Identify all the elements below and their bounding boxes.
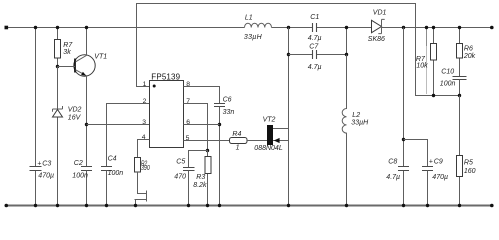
node junction C8 C9	[402, 138, 405, 141]
capacitor C5 470	[174, 159, 194, 206]
svg-text:C1: C1	[310, 14, 319, 21]
node junction C4 bottom	[105, 204, 108, 207]
wire top rail mid segment C1 to VD1	[317, 27, 372, 29]
svg-text:R4: R4	[232, 131, 241, 138]
svg-text:1: 1	[143, 81, 147, 88]
svg-text:C7: C7	[309, 44, 319, 51]
svg-text:8: 8	[186, 81, 190, 88]
svg-text:VD2: VD2	[68, 107, 82, 114]
wire output node down to C8	[403, 28, 405, 206]
resistor R7 3k	[55, 28, 74, 67]
svg-text:VT1: VT1	[94, 54, 107, 61]
node junction R1 bottom FB	[432, 94, 435, 97]
transistor VT2 088N04L	[254, 117, 288, 153]
svg-text:4.7µ: 4.7µ	[308, 64, 322, 71]
capacitor C4	[101, 156, 123, 206]
svg-text:8.2k: 8.2k	[193, 182, 207, 189]
svg-text:C10: C10	[441, 69, 454, 76]
node junction C3 top	[34, 26, 37, 29]
resistor R6 20k	[457, 28, 476, 77]
zener diode VD2 16V	[53, 67, 82, 206]
svg-text:470µ: 470µ	[432, 174, 448, 181]
svg-text:4.7µ: 4.7µ	[308, 35, 322, 42]
node junction FB sense top	[425, 26, 428, 29]
svg-text:C6: C6	[223, 97, 232, 104]
node input terminal minus	[5, 204, 9, 208]
node junction C1 C7 L2 VD1	[345, 26, 348, 29]
svg-text:33µH: 33µH	[351, 120, 369, 127]
node junction R1 top	[432, 26, 435, 29]
wire top rail left segment	[8, 27, 245, 29]
wire R2 bottom jog to ground	[135, 172, 147, 206]
svg-text:R5: R5	[464, 160, 473, 167]
svg-text:4.7µ: 4.7µ	[386, 174, 400, 181]
node junction R7 VD2 base	[56, 65, 59, 68]
node junction C10 bottom FB	[458, 94, 461, 97]
svg-text:C5: C5	[176, 159, 185, 166]
capacitor C7 4.7u	[289, 44, 347, 72]
svg-text:L2: L2	[352, 112, 360, 119]
transistor VT1	[58, 28, 108, 77]
wire C8 node to C9	[404, 140, 428, 167]
svg-text:VT2: VT2	[263, 117, 276, 124]
svg-text:FP5139: FP5139	[151, 72, 180, 81]
node junction VT1 collector top	[85, 26, 88, 29]
op-amp U1 FP5139	[142, 72, 191, 147]
capacitor C3	[30, 28, 55, 206]
svg-text:R3: R3	[196, 174, 205, 181]
node junction R7 top	[56, 26, 59, 29]
svg-text:7: 7	[186, 98, 190, 105]
svg-text:160: 160	[464, 168, 476, 175]
capacitor C10 100n	[440, 69, 467, 96]
svg-text:3: 3	[142, 119, 146, 126]
capacitor C6 33n	[214, 97, 234, 206]
node junction C7 L2	[345, 53, 348, 56]
svg-text:100n: 100n	[72, 173, 88, 180]
resistor R2 390	[135, 158, 150, 173]
node junction VT2 source ground	[287, 204, 290, 207]
node junction R3 top	[206, 149, 209, 152]
node junction switch node top	[287, 26, 290, 29]
svg-text:390: 390	[141, 165, 150, 172]
inductor L2 33uH	[342, 55, 369, 206]
node junction C3 bottom	[34, 204, 37, 207]
svg-text:R6: R6	[464, 46, 473, 53]
resistor R5 160	[457, 96, 476, 206]
svg-text:33µH: 33µH	[244, 34, 263, 41]
svg-text:C3: C3	[42, 161, 51, 168]
node input terminal plus	[5, 26, 9, 30]
node junction C9 ground	[426, 204, 429, 207]
svg-text:088N04L: 088N04L	[254, 145, 283, 152]
wire VT1 emitter down to C2	[86, 76, 88, 167]
svg-text:100n: 100n	[108, 170, 124, 177]
svg-text:+: +	[37, 161, 41, 168]
inductor L1 33uH	[244, 15, 272, 41]
svg-text:33n: 33n	[223, 109, 235, 116]
svg-text:10k: 10k	[416, 63, 428, 70]
resistor R1 10k	[416, 28, 437, 96]
wire pin 3 to emitter line	[87, 124, 150, 126]
node junction C8 ground	[402, 204, 405, 207]
capacitor C1 4.7u	[308, 14, 322, 42]
svg-text:3k: 3k	[63, 49, 71, 56]
node output terminal plus	[490, 26, 494, 30]
svg-text:C2: C2	[74, 160, 83, 167]
svg-text:2: 2	[143, 98, 147, 105]
wire pin 4 to R2	[138, 140, 150, 158]
node junction output caps top	[402, 26, 405, 29]
capacitor C9 470u	[422, 159, 448, 206]
wire R3 top to C5	[189, 151, 208, 168]
svg-text:470: 470	[174, 174, 186, 181]
node junction C6 line ground	[218, 204, 221, 207]
wire R4 to VT2 gate	[247, 140, 267, 142]
node junction R5 ground	[458, 204, 461, 207]
resistor R3 8.2k	[193, 151, 211, 206]
svg-text:C4: C4	[108, 156, 117, 163]
wire pin 8 to C6	[184, 87, 220, 104]
svg-text:C9: C9	[434, 159, 443, 166]
wire pin 5 to R4	[184, 140, 230, 142]
wire C7 right up to rail	[346, 28, 348, 55]
wire switch node vertical L1 to VT2 to ground	[288, 28, 290, 206]
wire feedback loop pin1 over top to FB node	[137, 4, 460, 96]
svg-text:470µ: 470µ	[38, 173, 54, 180]
svg-text:20k: 20k	[463, 53, 476, 60]
node junction C2 bottom	[85, 204, 88, 207]
svg-text:100n: 100n	[440, 81, 456, 88]
node junction R2 ground	[134, 204, 137, 207]
node junction C5 ground	[187, 204, 190, 207]
node junction L2 ground	[345, 204, 348, 207]
svg-text:1: 1	[236, 144, 240, 151]
svg-text:R7: R7	[63, 42, 73, 49]
svg-text:C8: C8	[388, 159, 397, 166]
node junction R6 top	[458, 26, 461, 29]
resistor R4 1	[230, 131, 248, 151]
node junction C7 branch	[287, 53, 290, 56]
wire FB sense rail to FB node	[426, 28, 428, 47]
capacitor C8 4.7u	[386, 159, 409, 182]
node output terminal minus	[490, 204, 494, 208]
wire pin 7 down to R3	[184, 104, 208, 151]
diode VD1 SK86	[368, 9, 387, 43]
capacitor C2	[72, 160, 92, 206]
wire pin 2 to C4	[107, 104, 150, 167]
svg-text:16V: 16V	[68, 115, 82, 122]
node junction VD2 bottom	[56, 204, 59, 207]
svg-text:4: 4	[142, 134, 146, 141]
wire L1 to C1 left plate	[272, 27, 313, 29]
svg-text:SK86: SK86	[368, 36, 385, 43]
node junction R3 ground	[206, 204, 209, 207]
node junction pin6 C6	[218, 123, 221, 126]
node junction emitter pin3	[85, 123, 88, 126]
svg-text:VD1: VD1	[373, 9, 387, 16]
svg-text:L1: L1	[245, 15, 253, 22]
wire pin 6	[184, 124, 220, 126]
svg-text:+: +	[429, 159, 433, 166]
svg-text:5: 5	[186, 135, 190, 142]
wire bottom ground rail	[8, 205, 492, 207]
wire top rail right segment VD1 to output	[382, 27, 493, 29]
